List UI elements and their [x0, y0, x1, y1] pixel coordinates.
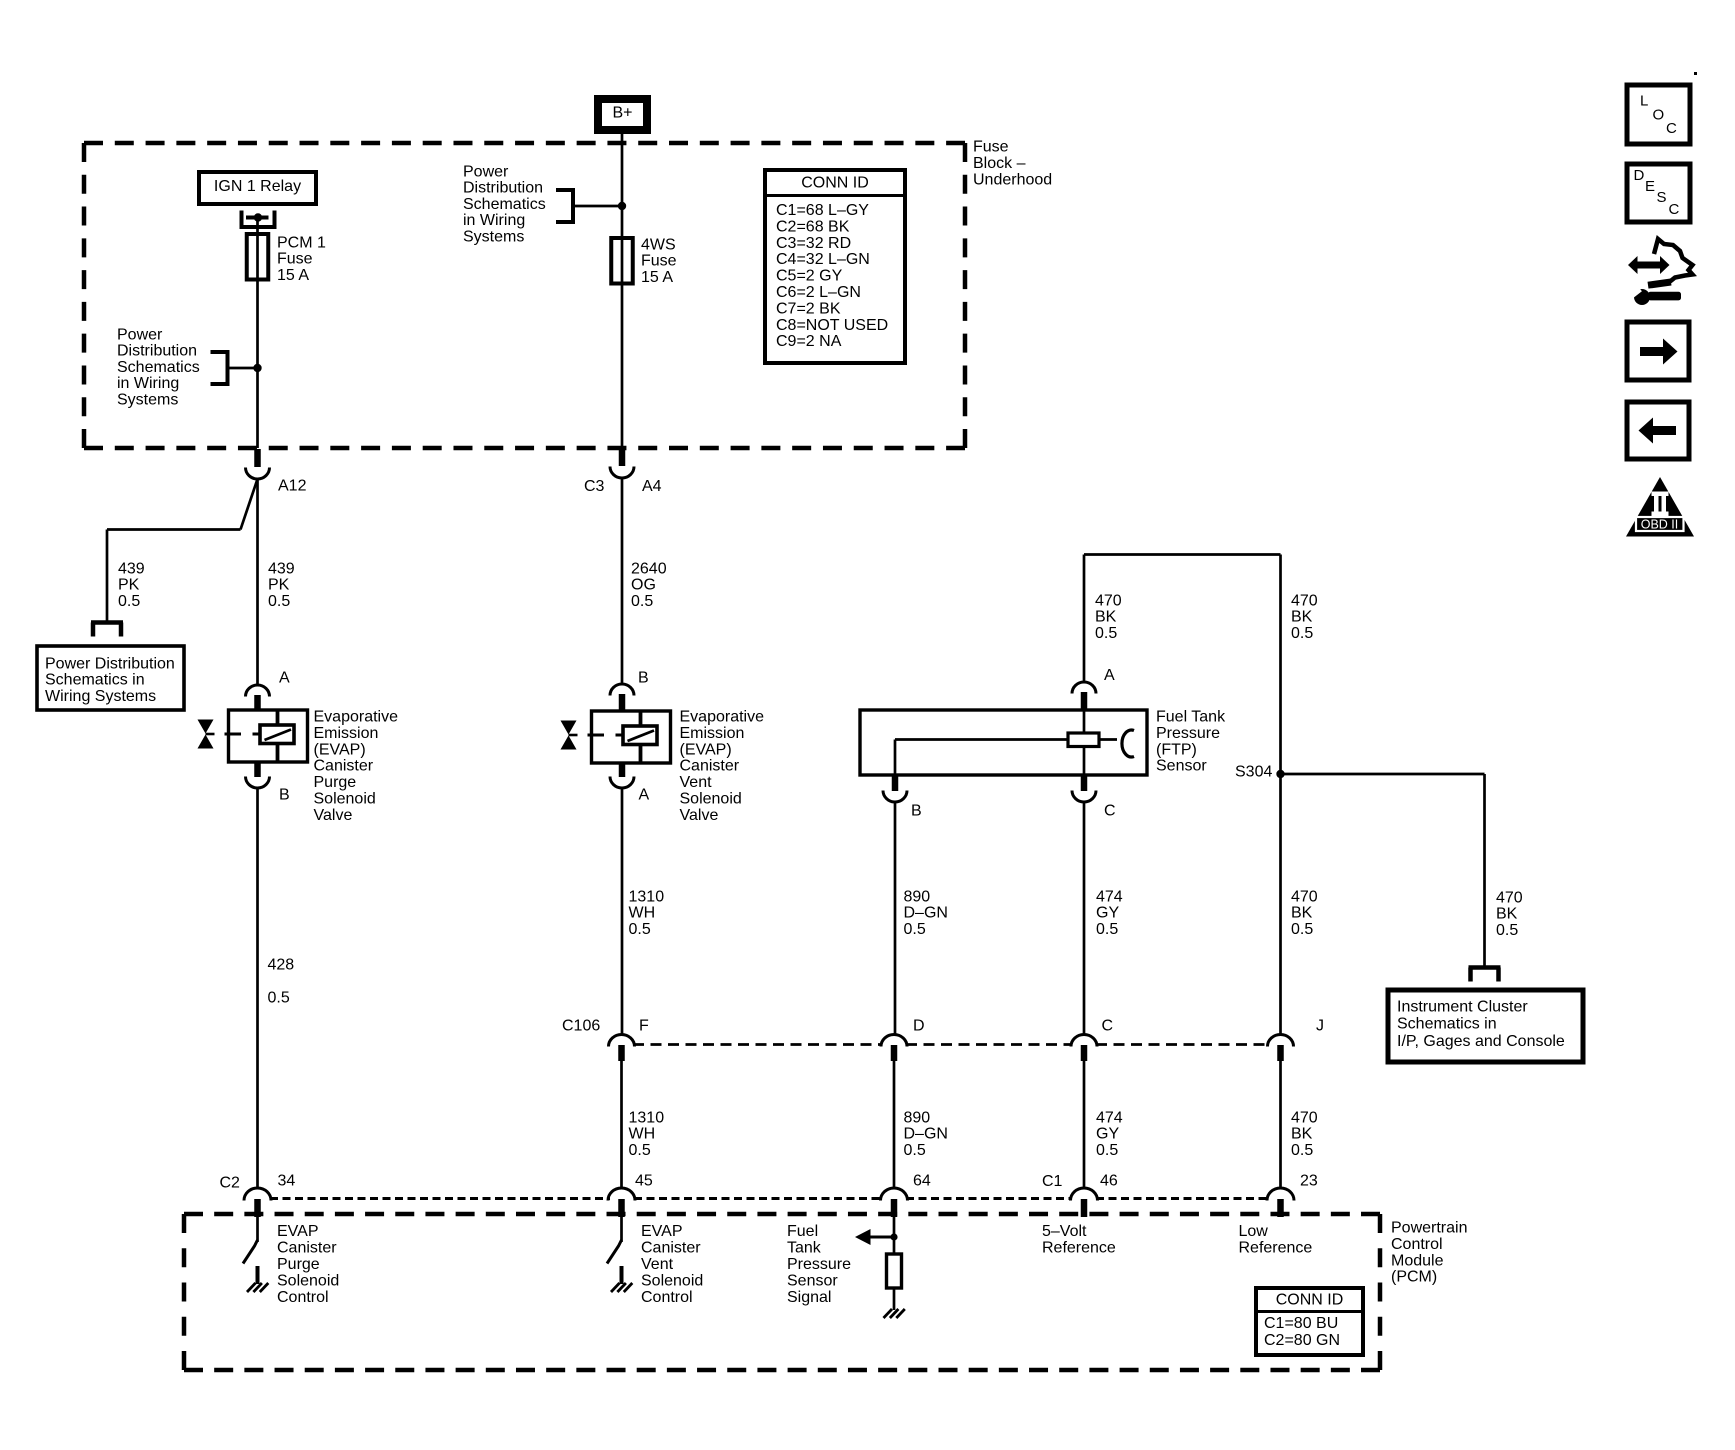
svg-text:Emission: Emission: [680, 725, 745, 742]
svg-text:Canister: Canister: [680, 758, 740, 775]
svg-text:CONN ID: CONN ID: [1276, 1292, 1344, 1309]
svg-text:34: 34: [278, 1173, 296, 1190]
svg-text:0.5: 0.5: [1095, 625, 1117, 642]
svg-text:Schematics in: Schematics in: [1397, 1016, 1497, 1033]
svg-text:Power: Power: [117, 327, 163, 344]
svg-text:Schematics in: Schematics in: [45, 672, 145, 689]
off-page connector to power distribution: [91, 623, 123, 637]
svg-text:470: 470: [1291, 889, 1318, 906]
junction dot pin 64: [890, 1233, 897, 1240]
label wire 428: [268, 957, 295, 974]
fuse 4WS 15A: [611, 206, 633, 284]
wire relay to PCM 1 fuse: [256, 218, 259, 235]
table CONN ID fuse block: [765, 170, 905, 363]
svg-text:A: A: [1104, 667, 1115, 684]
wire J to PCM 23: [1279, 1061, 1282, 1187]
label C1: [1042, 1173, 1063, 1190]
svg-text:Canister: Canister: [277, 1240, 337, 1257]
wire B+ down to 4WS fuse branch: [621, 134, 624, 206]
svg-text:S: S: [1657, 189, 1667, 206]
solenoid valve EVAP canister vent: [561, 711, 671, 763]
svg-text:C1=68 L–GY: C1=68 L–GY: [776, 202, 869, 219]
connector pin 34 PCM: [244, 1173, 295, 1218]
icon right arrow box: [1627, 322, 1689, 380]
chassis ground pin 34: [247, 1283, 268, 1292]
wire resistor to ground: [893, 1288, 896, 1310]
svg-text:Solenoid: Solenoid: [277, 1273, 339, 1290]
svg-text:BK: BK: [1291, 1126, 1313, 1143]
pointer bracket to PCM1 wire: [211, 352, 258, 384]
ground stub pin 34: [256, 1266, 260, 1284]
svg-text:Underhood: Underhood: [973, 171, 1052, 188]
svg-text:Distribution: Distribution: [117, 343, 197, 360]
pointer bracket to B+ wire: [556, 190, 622, 222]
svg-text:23: 23: [1300, 1173, 1318, 1190]
svg-text:B: B: [638, 670, 649, 687]
wire C to PCM 46: [1083, 1061, 1086, 1187]
svg-text:BK: BK: [1496, 906, 1518, 923]
svg-text:C1=80 BU: C1=80 BU: [1264, 1315, 1338, 1332]
svg-text:0.5: 0.5: [1291, 625, 1313, 642]
switch driver pin 45: [607, 1240, 622, 1264]
svg-text:C5=2 GY: C5=2 GY: [776, 268, 843, 285]
signal arrow pin 64: [855, 1229, 894, 1245]
svg-text:15 A: 15 A: [277, 267, 309, 284]
table CONN ID PCM: [1256, 1288, 1363, 1355]
label wire 1310 WH 0.5 (upper): [629, 889, 665, 938]
svg-text:470: 470: [1291, 1110, 1318, 1127]
svg-text:Pressure: Pressure: [787, 1256, 851, 1273]
svg-text:Power: Power: [463, 164, 509, 181]
svg-text:C7=2 BK: C7=2 BK: [776, 300, 841, 317]
resistor FTP element: [1068, 733, 1099, 747]
label power distribution schematics (left): [117, 327, 200, 409]
resistor pull-up pin 64: [887, 1254, 902, 1288]
svg-text:in Wiring: in Wiring: [117, 375, 179, 392]
svg-text:C4=32 L–GN: C4=32 L–GN: [776, 251, 870, 268]
svg-text:0.5: 0.5: [118, 593, 140, 610]
wire FTP C down to C106 C: [1083, 802, 1086, 1035]
svg-text:Fuse: Fuse: [973, 139, 1009, 156]
connector line C2 dotted: [270, 1197, 1268, 1200]
svg-text:A12: A12: [278, 478, 307, 495]
svg-text:PK: PK: [268, 577, 290, 594]
label EVAP canister vent solenoid control: [641, 1223, 703, 1306]
svg-text:in Wiring: in Wiring: [463, 212, 525, 229]
svg-text:Wiring Systems: Wiring Systems: [45, 688, 156, 705]
wire pin 64 internal: [893, 1217, 896, 1254]
label wire 439 PK 0.5 (main): [268, 561, 295, 610]
svg-text:474: 474: [1096, 1110, 1123, 1127]
svg-text:BK: BK: [1291, 609, 1313, 626]
svg-text:0.5: 0.5: [629, 921, 651, 938]
svg-text:Purge: Purge: [314, 774, 357, 791]
svg-text:Valve: Valve: [314, 807, 353, 824]
svg-text:Schematics: Schematics: [463, 196, 546, 213]
stray mark top right: [1694, 72, 1697, 75]
svg-text:0.5: 0.5: [629, 1142, 651, 1159]
label wire 474 GY 0.5 (lower): [1096, 1110, 1123, 1159]
svg-text:Fuse: Fuse: [641, 253, 677, 270]
svg-text:PK: PK: [118, 577, 140, 594]
svg-text:Vent: Vent: [680, 774, 713, 791]
wire F to PCM 45: [620, 1061, 623, 1187]
svg-text:Valve: Valve: [680, 807, 719, 824]
connector pin 45 PCM: [608, 1173, 653, 1218]
svg-text:I/P, Gages and Console: I/P, Gages and Console: [1397, 1033, 1565, 1050]
svg-text:Block –: Block –: [973, 155, 1026, 172]
label power distribution schematics (B+ branch): [463, 164, 546, 246]
svg-text:439: 439: [268, 561, 295, 578]
icon left arrow box: [1627, 402, 1689, 459]
svg-text:(PCM): (PCM): [1391, 1269, 1437, 1286]
svg-text:EVAP: EVAP: [277, 1223, 319, 1240]
svg-text:890: 890: [904, 1110, 931, 1127]
svg-text:D: D: [913, 1018, 925, 1035]
label wire 890 D-GN 0.5 (lower): [904, 1110, 948, 1159]
svg-text:Canister: Canister: [641, 1240, 701, 1257]
svg-text:0.5: 0.5: [1096, 921, 1118, 938]
svg-text:470: 470: [1291, 593, 1318, 610]
svg-text:B: B: [279, 787, 290, 804]
svg-text:5–Volt: 5–Volt: [1042, 1223, 1087, 1240]
svg-text:CONN ID: CONN ID: [801, 175, 869, 192]
label wire 2640 OG 0.5: [631, 561, 667, 610]
svg-text:C3=32 RD: C3=32 RD: [776, 235, 851, 252]
svg-text:Evaporative: Evaporative: [680, 709, 765, 726]
svg-text:1310: 1310: [629, 889, 665, 906]
splice dot S304: [1276, 770, 1284, 778]
svg-text:4WS: 4WS: [641, 237, 676, 254]
svg-text:Solenoid: Solenoid: [680, 791, 742, 808]
svg-text:Low: Low: [1239, 1223, 1269, 1240]
wire branch to power distribution: [107, 530, 241, 622]
svg-text:O: O: [1653, 107, 1665, 124]
svg-text:A4: A4: [642, 478, 662, 495]
svg-text:(EVAP): (EVAP): [680, 741, 732, 758]
svg-text:Reference: Reference: [1239, 1240, 1313, 1257]
svg-text:Fuel Tank: Fuel Tank: [1156, 709, 1226, 726]
label C106: [562, 1018, 600, 1035]
label wire 890 D-GN 0.5 (upper): [904, 889, 948, 938]
wire FTP supply top: [1084, 555, 1281, 775]
svg-text:GY: GY: [1096, 905, 1119, 922]
svg-text:A: A: [639, 787, 650, 804]
svg-text:D–GN: D–GN: [904, 905, 948, 922]
svg-text:Fuse: Fuse: [277, 251, 313, 268]
svg-text:C: C: [1669, 201, 1680, 218]
wire pin 45 internal: [620, 1217, 623, 1242]
svg-text:E: E: [1645, 178, 1655, 195]
svg-text:GY: GY: [1096, 1126, 1119, 1143]
svg-text:Tank: Tank: [787, 1240, 822, 1257]
svg-text:OBD II: OBD II: [1641, 518, 1679, 532]
svg-text:Solenoid: Solenoid: [314, 791, 376, 808]
connector C3/A4 fuse block: [584, 449, 662, 495]
solenoid valve EVAP canister purge: [198, 710, 308, 762]
svg-text:Schematics: Schematics: [117, 359, 200, 376]
svg-text:Signal: Signal: [787, 1289, 831, 1306]
label wire 470 BK 0.5 (upper): [1291, 889, 1318, 938]
svg-text:474: 474: [1096, 889, 1123, 906]
wire S304 branch to instrument cluster: [1281, 774, 1485, 966]
svg-text:Distribution: Distribution: [463, 180, 543, 197]
svg-text:L: L: [1640, 93, 1648, 110]
svg-text:Reference: Reference: [1042, 1240, 1116, 1257]
sensor box fuel tank pressure: [860, 710, 1147, 775]
relay contact bracket: [242, 211, 275, 228]
connector D C106: [881, 1018, 925, 1062]
svg-text:1310: 1310: [629, 1110, 665, 1127]
svg-text:0.5: 0.5: [1291, 921, 1313, 938]
svg-text:Instrument Cluster: Instrument Cluster: [1397, 999, 1528, 1016]
label wire 439 PK 0.5 (branch): [118, 561, 145, 610]
connector pin 23 PCM: [1267, 1173, 1318, 1218]
svg-text:Power Distribution: Power Distribution: [45, 656, 175, 673]
svg-text:428: 428: [268, 957, 295, 974]
label EVAP canister purge solenoid control: [277, 1223, 339, 1306]
FTP diaphragm crescent: [1122, 730, 1134, 757]
connector A FTP sensor: [1072, 667, 1115, 711]
wire D to PCM 64: [893, 1061, 896, 1187]
off-page connector instrument cluster: [1469, 968, 1501, 982]
label wire 470 BK 0.5 (FTP A): [1095, 593, 1122, 642]
svg-text:Vent: Vent: [641, 1256, 674, 1273]
fuse PCM 1 15A: [247, 234, 269, 280]
label fuel tank pressure sensor signal: [787, 1223, 851, 1306]
svg-text:C106: C106: [562, 1018, 600, 1035]
svg-text:C2=68 BK: C2=68 BK: [776, 218, 850, 235]
label wire 470 BK 0.5 (S304 top): [1291, 593, 1318, 642]
svg-text:Emission: Emission: [314, 725, 379, 742]
svg-text:C1: C1: [1042, 1173, 1063, 1190]
connector pin 64 PCM: [881, 1173, 931, 1218]
svg-text:470: 470: [1496, 890, 1523, 907]
connector F C106: [609, 1018, 650, 1062]
label wire 470 BK 0.5 (lower): [1291, 1110, 1318, 1159]
svg-text:(EVAP): (EVAP): [314, 741, 366, 758]
chassis ground pin 64: [884, 1309, 905, 1318]
svg-text:B: B: [911, 803, 922, 820]
svg-text:C3: C3: [584, 478, 605, 495]
label wire size 0.5 (428): [268, 990, 290, 1007]
label splice S304: [1235, 764, 1272, 781]
icon LOC box: [1627, 85, 1690, 144]
svg-text:C2: C2: [220, 1175, 241, 1192]
label wire 474 GY 0.5 (upper): [1096, 889, 1123, 938]
wire A12 splice diagonal: [241, 479, 258, 530]
wire A12 to purge solenoid A: [256, 479, 259, 684]
svg-text:Pressure: Pressure: [1156, 725, 1220, 742]
svg-text:Control: Control: [641, 1289, 693, 1306]
svg-text:Purge: Purge: [277, 1256, 320, 1273]
connector B purge solenoid: [246, 762, 290, 804]
svg-text:WH: WH: [629, 905, 656, 922]
icon vehicle with arrows and wrench: [1628, 239, 1693, 305]
svg-text:J: J: [1316, 1018, 1324, 1035]
svg-text:Control: Control: [277, 1289, 329, 1306]
wire 4WS fuse down to C3/A4: [621, 284, 624, 449]
svg-text:F: F: [639, 1018, 649, 1035]
connector J C106: [1268, 1018, 1325, 1062]
connector A purge solenoid: [246, 670, 291, 712]
svg-text:IGN 1 Relay: IGN 1 Relay: [214, 178, 301, 195]
svg-text:Evaporative: Evaporative: [314, 709, 399, 726]
svg-text:PCM 1: PCM 1: [277, 235, 326, 252]
switch driver pin 34: [243, 1240, 258, 1264]
box Power Distribution Schematics in Wiring Systems: [37, 646, 184, 710]
connector A vent solenoid: [610, 763, 650, 804]
FTP internal wiring: [895, 711, 1117, 774]
chassis ground pin 45: [611, 1283, 632, 1292]
box Instrument Cluster Schematics: [1388, 990, 1583, 1062]
svg-text:BK: BK: [1095, 609, 1117, 626]
svg-text:Sensor: Sensor: [787, 1273, 838, 1290]
svg-text:890: 890: [904, 889, 931, 906]
svg-text:0.5: 0.5: [1291, 1142, 1313, 1159]
svg-text:Solenoid: Solenoid: [641, 1273, 703, 1290]
svg-text:B+: B+: [612, 105, 632, 122]
label wire 1310 WH 0.5 (lower): [629, 1110, 665, 1159]
relay IGN 1 Relay box: [199, 172, 316, 204]
fuse block underhood dashed border: [84, 143, 965, 448]
svg-text:64: 64: [913, 1173, 931, 1190]
label Fuel Tank Pressure (FTP) Sensor: [1156, 709, 1226, 775]
icon OBD II warning triangle: [1626, 477, 1694, 537]
svg-text:EVAP: EVAP: [641, 1223, 683, 1240]
svg-text:C9=2 NA: C9=2 NA: [776, 333, 842, 350]
svg-text:470: 470: [1095, 593, 1122, 610]
connector C C106: [1071, 1018, 1113, 1062]
wire pin 34 internal: [256, 1217, 259, 1242]
wire PCM1 fuse down to A12: [256, 280, 259, 449]
svg-text:C8=NOT USED: C8=NOT USED: [776, 317, 888, 334]
wire S304 down to C106 J: [1279, 774, 1282, 1034]
connector line C106 dashed: [633, 1043, 1268, 1046]
svg-text:2640: 2640: [631, 561, 667, 578]
svg-text:WH: WH: [629, 1126, 656, 1143]
svg-text:C: C: [1666, 120, 1677, 137]
junction dot under IGN 1 relay: [254, 213, 262, 221]
wire FTP B down to C106 D: [894, 802, 897, 1035]
svg-text:0.5: 0.5: [904, 921, 926, 938]
label C2: [220, 1175, 241, 1192]
svg-text:BK: BK: [1291, 905, 1313, 922]
connector B vent solenoid: [610, 670, 649, 713]
label wire 470 BK 0.5 (instrument branch): [1496, 890, 1523, 939]
svg-text:Systems: Systems: [117, 391, 178, 408]
icon DESC box: [1627, 164, 1690, 222]
svg-text:0.5: 0.5: [268, 990, 290, 1007]
svg-text:OG: OG: [631, 577, 656, 594]
svg-text:Systems: Systems: [463, 228, 524, 245]
label Fuse Block - Underhood: [973, 139, 1052, 189]
label EVAP canister purge solenoid valve: [314, 709, 399, 824]
label PCM 1 Fuse 15 A: [277, 235, 326, 284]
label low reference: [1239, 1223, 1313, 1257]
connector C FTP sensor: [1072, 775, 1116, 820]
svg-text:D: D: [1634, 167, 1645, 184]
svg-text:15 A: 15 A: [641, 269, 673, 286]
svg-text:(FTP): (FTP): [1156, 741, 1197, 758]
svg-text:D–GN: D–GN: [904, 1126, 948, 1143]
svg-text:Powertrain: Powertrain: [1391, 1220, 1467, 1237]
svg-text:439: 439: [118, 561, 145, 578]
svg-text:Sensor: Sensor: [1156, 758, 1207, 775]
svg-text:0.5: 0.5: [1496, 922, 1518, 939]
label 5-volt reference: [1042, 1223, 1116, 1257]
label EVAP canister vent solenoid valve: [680, 709, 765, 824]
connector pin 46 PCM: [1071, 1173, 1118, 1218]
wire vent A down to C106 F: [621, 788, 624, 1034]
svg-text:Canister: Canister: [314, 758, 374, 775]
svg-text:0.5: 0.5: [1096, 1142, 1118, 1159]
svg-text:C6=2 L–GN: C6=2 L–GN: [776, 284, 861, 301]
svg-text:Fuel: Fuel: [787, 1223, 818, 1240]
svg-text:S304: S304: [1235, 764, 1272, 781]
junction dot on B+ wire: [618, 202, 626, 210]
connector B FTP sensor: [883, 775, 922, 820]
svg-text:0.5: 0.5: [268, 593, 290, 610]
connector A12 fuse block: [246, 449, 307, 495]
battery feed B+ terminal: [598, 99, 647, 130]
wire A4 to vent solenoid B: [621, 478, 624, 685]
wire purge B down to PCM pin 34: [256, 788, 259, 1189]
label 4WS Fuse 15 A: [641, 237, 677, 286]
svg-text:C: C: [1102, 1018, 1114, 1035]
ground stub pin 45: [620, 1266, 624, 1284]
svg-text:C: C: [1104, 803, 1116, 820]
svg-text:C2=80 GN: C2=80 GN: [1264, 1332, 1340, 1349]
label Powertrain Control Module (PCM): [1391, 1220, 1467, 1286]
svg-text:0.5: 0.5: [904, 1142, 926, 1159]
svg-text:0.5: 0.5: [631, 593, 653, 610]
powertrain control module dashed border: [184, 1214, 1380, 1370]
svg-text:45: 45: [635, 1173, 653, 1190]
svg-text:A: A: [279, 670, 290, 687]
svg-text:Control: Control: [1391, 1236, 1443, 1253]
svg-text:Module: Module: [1391, 1252, 1444, 1269]
svg-text:46: 46: [1100, 1173, 1118, 1190]
junction dot on PCM1 wire: [253, 364, 261, 372]
